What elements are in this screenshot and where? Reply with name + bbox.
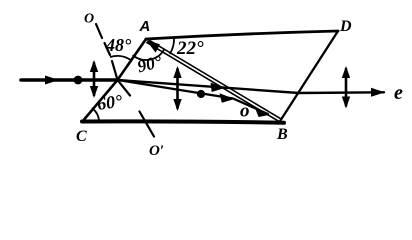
svg-text:o: o	[240, 101, 250, 122]
svg-text:O: O	[84, 12, 94, 27]
svg-text:A: A	[139, 18, 151, 35]
svg-text:O′: O′	[149, 143, 164, 159]
svg-text:D: D	[339, 18, 352, 35]
svg-text:60°: 60°	[96, 91, 125, 114]
svg-text:B: B	[276, 126, 288, 143]
svg-text:48°: 48°	[105, 35, 132, 55]
svg-text:22°: 22°	[176, 38, 204, 59]
svg-text:C: C	[76, 128, 87, 145]
svg-text:e: e	[394, 82, 403, 104]
